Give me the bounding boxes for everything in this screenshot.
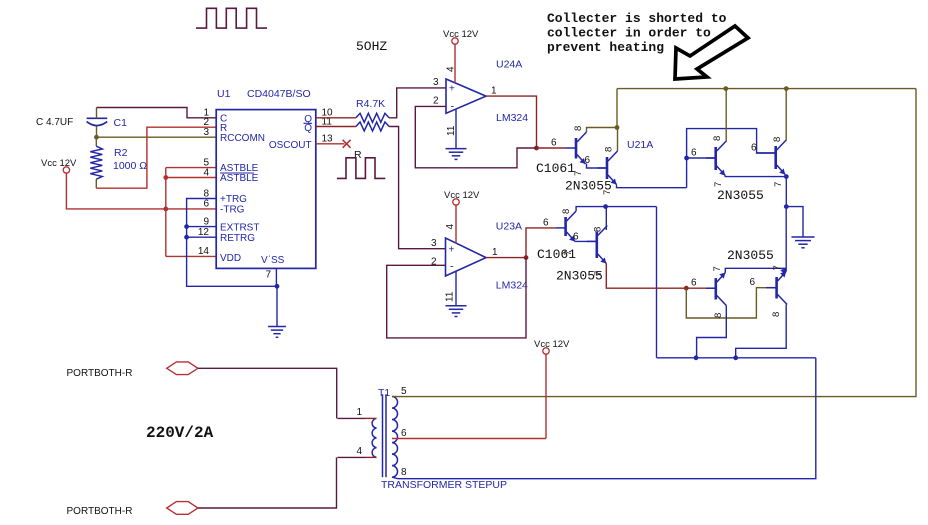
- junction at ASTBLE pin 4 line: [163, 175, 168, 180]
- svg-text:6: 6: [691, 148, 697, 159]
- transformer secondary winding: [392, 397, 398, 478]
- svg-text:8: 8: [561, 209, 572, 214]
- svg-text:LM324: LM324: [496, 280, 528, 292]
- wire: top port to transformer pin 1: [198, 368, 337, 418]
- svg-text:RCCOMN: RCCOMN: [220, 133, 265, 144]
- svg-text:6: 6: [401, 428, 407, 439]
- wire: pin 4 ASTBLE stub: [166, 177, 216, 179]
- waveform symbol: oscillator square wave (top left): [196, 8, 267, 28]
- waveform symbol: OSCOUT square wave: [337, 158, 385, 179]
- wire: C1 bottom to RCCOMN node: [96, 126, 98, 137]
- svg-text:8: 8: [712, 136, 723, 141]
- wire: U23A output up to C1061 lower base: [526, 228, 556, 258]
- svg-text:8: 8: [593, 227, 604, 232]
- junction bottom bus left: [694, 355, 699, 360]
- svg-text:7: 7: [563, 250, 574, 255]
- svg-text:5: 5: [401, 386, 407, 397]
- junction emitter node: [784, 174, 789, 179]
- svg-text:7: 7: [773, 182, 784, 187]
- wire: collector bus vertical to top bus: [616, 89, 618, 128]
- wire: pin 5 ASTBLE stub: [166, 167, 216, 169]
- svg-text:C 4.7UF: C 4.7UF: [36, 117, 73, 128]
- svg-text:Q: Q: [304, 123, 312, 134]
- svg-text:6: 6: [691, 278, 697, 289]
- svg-text:8: 8: [771, 312, 782, 317]
- svg-text:-TRG: -TRG: [220, 205, 245, 216]
- wire: 2N3055 collector up to bus junction: [617, 128, 619, 152]
- wire: U24A output to C1061 base: [537, 147, 567, 149]
- annotation arrow pointing to shorted collectors: [675, 26, 748, 79]
- svg-text:OSCOUT: OSCOUT: [269, 140, 312, 151]
- svg-text:EXTRST: EXTRST: [220, 223, 259, 234]
- svg-text:PORTBOTH-R: PORTBOTH-R: [67, 506, 133, 517]
- svg-text:Vcc 12V: Vcc 12V: [534, 339, 570, 350]
- svg-text:-: -: [450, 261, 454, 273]
- wire: blue bracket +TRG/EXTRST/RETRG to VSS ground: [187, 199, 277, 287]
- svg-text:6: 6: [750, 277, 756, 288]
- op-amp U23A: [446, 238, 487, 276]
- wire: pin 12 RETRG stub: [187, 236, 217, 238]
- svg-text:6: 6: [751, 143, 757, 154]
- wire: 2N3055 lower emitter down and right to lower pair bases: [606, 264, 686, 289]
- svg-text:8: 8: [203, 188, 209, 199]
- ground (U23A): [446, 305, 467, 307]
- pin 6 wire: [392, 438, 546, 440]
- svg-text:7: 7: [593, 271, 604, 276]
- junction lower pair base node: [684, 286, 689, 291]
- svg-text:6: 6: [543, 218, 549, 229]
- transformer primary winding: [372, 418, 376, 457]
- power Vcc 12V (transformer): [543, 348, 549, 354]
- wire: U24A pin 11 to ground: [455, 109, 457, 149]
- svg-text:collecter in order to: collecter in order to: [547, 26, 711, 41]
- svg-text:4: 4: [356, 446, 362, 457]
- svg-text:220V/2A: 220V/2A: [146, 424, 214, 442]
- svg-text:1: 1: [492, 247, 498, 258]
- svg-text:6: 6: [203, 199, 209, 210]
- transistor 2N3055 (output pair lower-left, inverted): [714, 278, 717, 299]
- svg-text:9: 9: [203, 216, 209, 227]
- svg-text:4: 4: [445, 224, 456, 230]
- wire: tee to ground symbol: [786, 207, 803, 237]
- svg-text:3: 3: [433, 77, 439, 88]
- svg-text:3: 3: [203, 127, 209, 138]
- ground (U24A): [446, 148, 467, 150]
- wire: right emitter up to ground tee: [785, 207, 787, 272]
- svg-text:1: 1: [356, 407, 362, 418]
- wire: pin 11 Q stub: [316, 126, 356, 128]
- svg-text:7: 7: [713, 182, 724, 187]
- svg-text:U24A: U24A: [496, 59, 522, 71]
- wire: VSS node to ground: [276, 286, 278, 326]
- junction bottom bus right: [733, 355, 738, 360]
- svg-text:C1061: C1061: [536, 161, 575, 176]
- svg-text:2: 2: [433, 96, 439, 107]
- junction on -TRG line: [163, 207, 168, 212]
- svg-text:7: 7: [602, 190, 613, 195]
- wire: lower collector rail down right side: [656, 207, 658, 358]
- svg-text:T1: T1: [378, 387, 390, 399]
- IC U1 CD4047B/SO body: [216, 110, 316, 269]
- svg-text:Vcc 12V: Vcc 12V: [444, 190, 480, 201]
- svg-text:LM324: LM324: [496, 112, 528, 124]
- svg-text:2N3055: 2N3055: [717, 188, 764, 203]
- junction RETRG: [184, 235, 189, 240]
- wire: C1061 emitter to 2N3055 base: [587, 164, 608, 169]
- svg-text:8: 8: [573, 126, 584, 131]
- pin 8 wire stub: [392, 477, 398, 479]
- wire: top collector bus: [617, 88, 916, 90]
- ground (U1 VSS): [268, 326, 286, 328]
- wire: bus right end down to transformer pin 5: [398, 89, 916, 397]
- wire: olive detour to right transistor base: [686, 288, 776, 318]
- wire: OSCOUT pin 13 stub: [316, 143, 345, 145]
- svg-text:R4.7K: R4.7K: [356, 98, 385, 110]
- junction ground tee: [784, 204, 789, 209]
- svg-text:1: 1: [491, 86, 497, 97]
- svg-text:Collecter is shorted to: Collecter is shorted to: [547, 11, 727, 26]
- svg-text:U23A: U23A: [496, 221, 522, 233]
- transistor 2N3055 (lower driver): [595, 232, 598, 259]
- svg-text:8: 8: [713, 313, 724, 318]
- wire: bottom collector bus: [657, 357, 816, 359]
- svg-text:7: 7: [573, 171, 584, 176]
- junction top bus at x=786.3: [784, 86, 789, 91]
- no-connect X on pin 13: [343, 140, 351, 148]
- svg-text:6: 6: [551, 138, 557, 149]
- svg-text:VDD: VDD: [220, 253, 241, 264]
- wire: vertical branch to ASTBLE pins and VDD: [165, 168, 167, 257]
- svg-text:+: +: [449, 245, 455, 256]
- junction U23A output node: [524, 255, 529, 260]
- junction VSS node: [275, 284, 280, 289]
- wire: bottom port to transformer pin 4: [198, 457, 337, 508]
- svg-text:2N3055: 2N3055: [727, 248, 774, 263]
- wire: VSS pin 7 down: [275, 268, 277, 286]
- wire: C1 top to pin 1 of U1: [96, 108, 98, 119]
- svg-text:8: 8: [604, 147, 615, 152]
- transistor C1061 (lower driver): [564, 217, 567, 236]
- power Vcc 12V (U23A): [453, 199, 459, 205]
- transistor 2N3055 (output pair upper-right): [774, 146, 777, 169]
- capacitor C1: [87, 117, 108, 119]
- wire: R2 bottom to pin 2 (R) of U1: [96, 127, 216, 188]
- transistor 2N3055 (output pair upper-left): [714, 147, 717, 170]
- wire: U24A feedback to pin 2: [415, 106, 536, 167]
- svg-text:RETRG: RETRG: [220, 233, 255, 244]
- pin 5 wire stub: [392, 396, 398, 398]
- resistor R2: [95, 137, 97, 146]
- svg-text:1000 Ω: 1000 Ω: [113, 160, 147, 172]
- svg-text:7: 7: [712, 266, 723, 271]
- wire: U23A feedback loop to pin 2: [387, 258, 526, 338]
- svg-text:Vcc 12V: Vcc 12V: [41, 158, 77, 169]
- wire: U24A output pin 1: [486, 96, 537, 148]
- wire: U23A output pin 1: [486, 257, 526, 259]
- wire: pin 14 VDD stub: [166, 255, 216, 257]
- svg-text:TRANSFORMER STEPUP: TRANSFORMER STEPUP: [381, 479, 507, 491]
- wire: collector to top bus: [725, 89, 727, 142]
- svg-text:U1: U1: [217, 88, 231, 100]
- svg-text:12: 12: [198, 227, 210, 238]
- wire: RCCOMN node to pin 3 of U1: [97, 136, 217, 138]
- ground (output emitters): [791, 236, 814, 238]
- wire: base stub left transistor of pair: [687, 157, 716, 159]
- svg-text:8: 8: [772, 137, 783, 142]
- transistor 2N3055 (output pair lower-right, inverted): [775, 277, 778, 299]
- svg-text:C1: C1: [114, 117, 128, 129]
- svg-text:VˈSS: VˈSS: [261, 255, 285, 266]
- wire: left emitter up to common emitter line: [725, 268, 786, 272]
- resistor R4.7K (upper): [356, 113, 389, 122]
- wire: R4.7K lower to U23A + input: [389, 127, 445, 249]
- junction base node: [684, 156, 689, 161]
- wire: Vcc down to pin 6: [545, 354, 547, 438]
- junction U24A output node: [534, 146, 539, 151]
- wire: left collector down to bottom bus: [697, 306, 727, 358]
- power Vcc 12V (left): [63, 167, 69, 173]
- svg-text:PORTBOTH-R: PORTBOTH-R: [67, 368, 133, 379]
- wire: emitter to common node: [785, 175, 787, 177]
- power Vcc 12V (U24A): [452, 38, 458, 44]
- svg-text:5OHZ: 5OHZ: [356, 39, 387, 54]
- wire: C1061 lower emitter to 2N3055 base: [575, 240, 597, 242]
- wire: right collector down to bottom bus: [736, 305, 787, 358]
- svg-text:6: 6: [585, 155, 591, 166]
- op-amp U24A: [446, 79, 486, 113]
- svg-text:U21A: U21A: [627, 139, 653, 151]
- wire: base stub lower-left output transistor: [686, 287, 716, 289]
- svg-text:13: 13: [322, 134, 334, 145]
- wire: collector to top bus: [785, 89, 787, 141]
- svg-text:11: 11: [445, 291, 456, 302]
- transistor C1061 (upper driver): [575, 138, 578, 159]
- junction top bus at x=725.8: [723, 86, 728, 91]
- wire: emitter node down to ground tee: [785, 177, 787, 207]
- wire: U23A pin 11 to ground: [455, 271, 457, 306]
- wire: emitter down and right to common emitter node: [725, 176, 786, 177]
- wire: pin 9 EXTRST stub: [187, 226, 217, 228]
- svg-text:14: 14: [198, 246, 210, 257]
- resistor R4.7K (lower): [356, 122, 389, 131]
- svg-text:prevent heating: prevent heating: [547, 40, 664, 55]
- wire: C1061 collector up to collector bus: [587, 128, 618, 133]
- wire: Vcc to U24A pin 4: [454, 44, 456, 83]
- svg-text:8: 8: [401, 467, 407, 478]
- wire: base node bracket for output pair: [687, 129, 776, 188]
- wire: 2N3055 lower collector up to rail: [605, 207, 607, 230]
- transistor 2N3055 (upper driver, U21A): [606, 157, 609, 179]
- svg-text:+: +: [449, 84, 455, 95]
- wire: pin 10 Q-bar stub: [316, 117, 356, 119]
- svg-text:Vcc 12V: Vcc 12V: [443, 29, 479, 40]
- svg-text:R2: R2: [114, 147, 128, 159]
- junction lower collector rail: [603, 204, 608, 209]
- wire: Vcc to U23A pin 4: [455, 205, 457, 243]
- wire: bottom bus down to transformer pin 8: [398, 358, 816, 479]
- pin 4 wire: [337, 456, 365, 458]
- svg-text:-: -: [451, 101, 455, 113]
- junction EXTRST: [184, 224, 189, 229]
- svg-text:6: 6: [573, 232, 579, 243]
- node RCCOMN junction: [94, 135, 99, 140]
- svg-text:7: 7: [265, 270, 271, 281]
- wire: R4.7K upper to U24A + input: [389, 88, 446, 118]
- svg-text:3: 3: [431, 238, 437, 249]
- wire: C1061 lower collector up to lower collector rail: [576, 207, 656, 211]
- wire: 2N3055 emitter to output pair bases: [617, 185, 687, 188]
- svg-text:7: 7: [772, 265, 783, 270]
- svg-text:CD4047B/SO: CD4047B/SO: [247, 88, 311, 100]
- svg-text:ASTBLE: ASTBLE: [220, 173, 259, 184]
- junction collector bus node: [615, 125, 620, 130]
- transformer T1 core: [382, 394, 384, 477]
- pin 1 wire: [337, 417, 365, 419]
- svg-text:4: 4: [203, 167, 209, 178]
- wire: Vcc to -TRG / VDD net: [66, 173, 216, 209]
